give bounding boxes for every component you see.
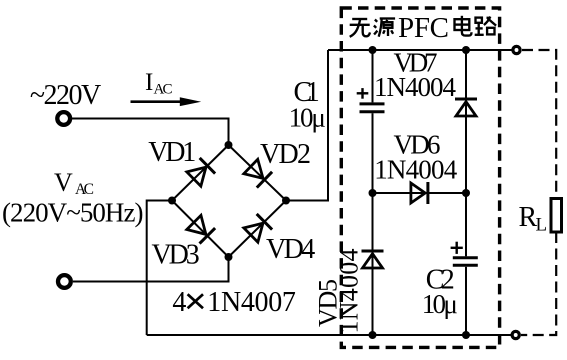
capacitor C2 [451, 193, 478, 335]
label VD4 [266, 234, 315, 265]
wire top AC line from terminal to bridge top [72, 119, 229, 148]
label VD1 [148, 137, 196, 168]
diode VD5 branch wire [372, 193, 374, 335]
diode VD7 [455, 99, 477, 116]
wire dashed load connection [521, 50, 556, 335]
node VD7 top rail junction [462, 46, 470, 54]
label RL [519, 202, 548, 236]
char wu [350, 19, 370, 37]
diode VD1 [186, 158, 215, 187]
label ~220V [30, 80, 101, 111]
label 4x1N4007 [172, 287, 296, 318]
label title PFC (Chinese drawn as paths) [350, 16, 496, 37]
svg-text:PFC: PFC [398, 12, 449, 44]
label VD5 value 1N4004 (rotated) [335, 249, 364, 334]
wire bottom rail [147, 334, 511, 336]
dashed box PFC circuit [341, 8, 499, 347]
label VD2 [260, 139, 311, 170]
diode VD4 [243, 214, 272, 243]
svg-text:(220V~50Hz): (220V~50Hz) [2, 198, 144, 228]
label VD5 (rotated) [314, 279, 343, 327]
terminal input bottom [58, 275, 71, 288]
label IAC [145, 69, 173, 98]
label VD3 [152, 240, 200, 271]
label C2 value 10u [422, 289, 458, 319]
svg-text:VD3: VD3 [152, 240, 200, 271]
wire bottom AC line from terminal to bridge bottom [73, 257, 229, 282]
diode VD7 branch wire [465, 50, 467, 193]
terminal output top [513, 46, 520, 53]
char dian [455, 16, 472, 36]
diode VD2 [243, 159, 272, 188]
svg-text:V: V [54, 168, 73, 197]
svg-text:VD2: VD2 [260, 139, 311, 170]
wire top rail [328, 49, 512, 51]
svg-text:10μ: 10μ [289, 102, 326, 132]
label C1 [294, 77, 320, 108]
diode VD5 [362, 251, 384, 268]
svg-text:VD4: VD4 [266, 234, 315, 265]
svg-text:I: I [145, 69, 153, 96]
label C2 [426, 265, 455, 296]
terminal output bottom [512, 331, 519, 338]
wire bridge right node to top rail [286, 50, 328, 201]
svg-text:1N4004: 1N4004 [374, 155, 458, 185]
node C2 bottom rail junction [462, 331, 470, 339]
node C1 top rail junction [369, 46, 377, 54]
char yuan [374, 19, 395, 37]
node bridge left junction [168, 197, 176, 205]
node bridge top junction [225, 141, 233, 149]
label VD6 value 1N4004 [374, 155, 458, 185]
node bridge bottom junction [225, 253, 233, 261]
svg-text:1N4007: 1N4007 [207, 287, 296, 318]
label VAC [54, 168, 94, 198]
svg-text:4: 4 [172, 287, 186, 318]
svg-text:10μ: 10μ [422, 289, 458, 319]
svg-text:AC: AC [154, 82, 173, 98]
svg-text:VD1: VD1 [148, 137, 196, 168]
label VD7 [394, 48, 438, 78]
char lu [475, 17, 496, 35]
node bridge right junction [282, 197, 290, 205]
diode VD6 wire [373, 192, 467, 194]
node A C1-VD6-VD5 junction [369, 189, 377, 197]
label VD7 value 1N4004 [374, 72, 457, 102]
node B VD6-VD7-C2 junction [462, 189, 470, 197]
svg-text:1N4004: 1N4004 [335, 249, 364, 334]
label (220V~50Hz) [2, 198, 144, 228]
current arrow IAC [131, 97, 202, 106]
label C1 value 10u [289, 102, 326, 132]
resistor RL [551, 199, 562, 233]
diode VD3 [186, 215, 215, 244]
wire bridge left node to bottom rail [147, 201, 172, 336]
svg-text:1N4004: 1N4004 [374, 72, 457, 102]
svg-text:AC: AC [75, 181, 94, 198]
capacitor C1 [357, 50, 385, 193]
node VD5 bottom rail junction [369, 331, 377, 339]
label title PFC latin part [398, 12, 449, 44]
diode VD6 [411, 182, 428, 204]
label VD6 [394, 130, 441, 160]
svg-text:L: L [536, 215, 548, 236]
wire bridge diamond [172, 145, 286, 257]
svg-text:~220V: ~220V [30, 80, 101, 111]
terminal input top [57, 112, 70, 125]
